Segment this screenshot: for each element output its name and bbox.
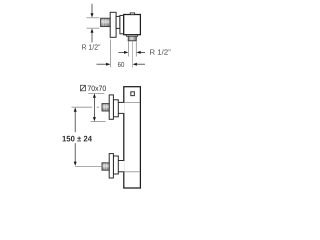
top connection: union step xyxy=(113,100,118,117)
valve body (side elevation) xyxy=(124,87,141,188)
label 150 ± 24 xyxy=(62,136,91,142)
label 60 xyxy=(118,62,124,67)
union step xyxy=(116,16,120,28)
70x70 dim: bottom extension line xyxy=(91,121,106,123)
extension line nipple top edge xyxy=(87,17,100,19)
extension line nipple bottom edge xyxy=(87,27,100,29)
boss xyxy=(120,15,124,33)
150 dim: vertical line with arrows xyxy=(74,107,77,165)
body joint line top xyxy=(124,101,139,103)
top connection: wall nipple xyxy=(102,104,109,111)
150 dim: top extension line (centerline top connection) xyxy=(72,106,93,108)
outlet step below body xyxy=(126,35,137,37)
70x70 dim: top extension line xyxy=(88,92,104,94)
150 dim: bottom extension line (centerline bottom connection) xyxy=(75,165,102,167)
label R 1/2" (right) xyxy=(150,49,170,54)
60 dim: left arrow xyxy=(97,63,107,65)
valve body (plan) xyxy=(124,15,141,35)
top connection: neck xyxy=(118,102,124,114)
label square symbol 70x70 xyxy=(80,85,85,91)
60 dim: right arrow xyxy=(136,63,145,65)
button tab on body xyxy=(130,13,134,15)
R 1/2" outlet dim: right-pointing arrow xyxy=(119,51,125,53)
wall nipple (hatched thread) xyxy=(101,18,111,26)
extension line outlet left edge xyxy=(128,42,130,57)
bottom connection: neck xyxy=(118,160,124,172)
extension line outlet right edge xyxy=(135,42,137,57)
R 1/2" outlet dim: left-pointing arrow xyxy=(140,51,145,53)
outlet nipple (hatched thread) xyxy=(128,36,136,41)
bottom connection: escutcheon flange xyxy=(109,154,113,178)
body joint line bottom xyxy=(124,171,139,173)
bottom connection: wall nipple xyxy=(102,163,109,170)
extension line from flange (60 dim, left) xyxy=(110,40,112,68)
dimension arrow down (R 1/2" wall thread) xyxy=(91,4,93,14)
dimension arrow up xyxy=(91,33,93,43)
70x70 dim: double arrow xyxy=(93,94,96,122)
label 70x70 xyxy=(88,86,106,91)
label R 1/2" (left) xyxy=(82,44,100,49)
outlet centerline (dashed) xyxy=(131,42,133,68)
top connection: escutcheon flange xyxy=(109,95,113,119)
escutcheon flange (edge view) xyxy=(110,12,116,37)
bottom connection: union step xyxy=(113,156,118,174)
button square on body face xyxy=(131,92,135,96)
